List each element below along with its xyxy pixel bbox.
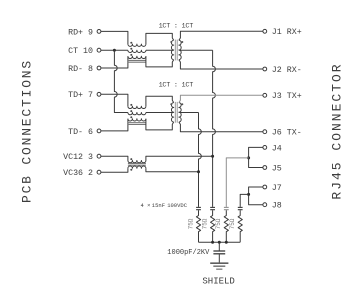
wire T1 secondary center tap to net B <box>179 49 213 51</box>
svg-text:J2 RX-: J2 RX- <box>272 66 302 75</box>
label 4 x 15nF 100VDC <box>141 202 188 209</box>
wire TD+ to choke L2 winding 1 <box>101 94 128 106</box>
transformer T1 phase dots <box>170 41 183 43</box>
svg-text:J6 TX-: J6 TX- <box>272 129 302 138</box>
svg-text:J8: J8 <box>272 202 282 211</box>
wire choke L1 w1 to transformer T1 primary top <box>146 33 174 44</box>
wire J4-J5 tie <box>249 147 263 167</box>
wire VC36 to choke L3 winding B <box>101 168 128 172</box>
wire RD- to choke L1 winding 3 <box>101 56 128 68</box>
junction net A / VC36 <box>197 170 200 173</box>
capacitor C3 (gray) <box>224 207 229 209</box>
svg-text:1CT : 1CT: 1CT : 1CT <box>159 81 194 89</box>
wire T1 secondary bottom to J2 <box>179 60 263 69</box>
transformer T2 primary winding <box>171 103 173 122</box>
choke L3 winding A <box>128 158 146 163</box>
ground bus <box>199 241 241 243</box>
pin VC36 2 <box>63 169 101 178</box>
transformer T1 core <box>175 40 177 61</box>
resistor R2 75ohm <box>201 210 214 242</box>
pin J3 TX+ <box>263 92 302 101</box>
svg-text:75Ω: 75Ω <box>229 218 236 229</box>
pin J1 RX+ <box>263 28 302 37</box>
svg-text:4 ×: 4 × <box>141 202 151 209</box>
svg-text:TD+ 7: TD+ 7 <box>68 91 93 100</box>
wire T2 secondary top to J3 (gray) <box>179 95 263 102</box>
junction on CT wire <box>113 49 116 52</box>
svg-text:VC36 2: VC36 2 <box>63 169 93 178</box>
capacitor C4 <box>238 207 243 209</box>
pin J7 <box>263 184 282 193</box>
pin TD+ 7 <box>68 91 101 100</box>
wire VC12 to choke L3 winding A <box>101 156 128 160</box>
transformer T2 core <box>175 102 177 123</box>
resistor R1 75ohm <box>187 210 200 242</box>
svg-text:J1 RX+: J1 RX+ <box>272 28 302 37</box>
choke L2 winding 1 <box>128 104 146 109</box>
svg-text:75Ω: 75Ω <box>215 218 222 229</box>
svg-text:TD- 6: TD- 6 <box>68 128 93 137</box>
junction net B / VC12 <box>211 155 214 158</box>
pin J2 RX- <box>263 66 302 75</box>
svg-text:100VDC: 100VDC <box>167 202 188 209</box>
wire T2 secondary center tap to net A <box>179 112 199 114</box>
wire TD- to choke L2 winding 3 <box>101 119 128 131</box>
wire J7-J8 tie <box>249 187 263 205</box>
choke L1 winding 3 <box>128 54 146 59</box>
choke L3 core <box>128 164 146 166</box>
wire T1 secondary top to J1 <box>179 31 263 40</box>
transformer T1 primary winding <box>171 40 173 59</box>
wire choke L2 w3 to T2 primary bottom <box>146 119 174 130</box>
capacitor C2 <box>210 207 215 209</box>
choke L3 winding B <box>128 166 146 171</box>
transformer T1 secondary winding <box>179 40 181 59</box>
svg-text:J4: J4 <box>272 144 282 153</box>
wire J4/J5 to branch 3 (gray) <box>226 158 248 207</box>
pin J5 <box>263 164 282 173</box>
svg-text:SHIELD: SHIELD <box>202 277 234 287</box>
wire choke L3 winding A to net B <box>146 156 213 160</box>
wire CT junction down to choke L2 winding 2 (hops RD- and TD+) <box>114 50 128 112</box>
pin VC12 3 <box>63 153 101 162</box>
svg-text:15nF: 15nF <box>152 202 165 209</box>
pin RD- 8 <box>68 65 101 74</box>
svg-text:RD- 8: RD- 8 <box>68 65 93 74</box>
capacitor C1 <box>196 207 201 209</box>
choke L2 winding 2 <box>128 110 146 115</box>
capacitor C5 1000pF/2KV <box>213 242 225 263</box>
svg-text:VC12 3: VC12 3 <box>63 153 93 162</box>
wire CT to choke L1 winding 2 <box>101 49 128 51</box>
svg-text:RJ45 CONNECTOR: RJ45 CONNECTOR <box>329 62 344 199</box>
choke L2 core <box>128 123 146 125</box>
pin J6 TX- <box>263 129 302 138</box>
junction J4/J5 <box>247 156 250 159</box>
junction bus / R3 <box>225 241 228 244</box>
svg-text:75Ω: 75Ω <box>187 218 194 229</box>
wire choke L1 w3 to T1 primary bottom <box>146 56 174 67</box>
choke L1 winding 2 <box>128 48 146 53</box>
transformer T2 secondary winding <box>179 103 181 122</box>
wire T2 secondary bottom to J6 <box>179 122 263 132</box>
svg-text:1000pF/2KV: 1000pF/2KV <box>167 249 210 257</box>
pin TD- 6 <box>68 128 101 137</box>
net B vertical (RX CT) with hops at J2, J3, J6 <box>213 50 216 207</box>
pin J4 <box>263 144 282 153</box>
svg-text:1CT : 1CT: 1CT : 1CT <box>159 22 194 30</box>
ground symbol SHIELD <box>210 263 228 269</box>
junction bus / shield drop <box>218 241 221 244</box>
wire choke L3 winding B to net A <box>146 168 199 172</box>
svg-text:J3 TX+: J3 TX+ <box>272 92 302 101</box>
choke L2 winding 3 <box>128 116 146 121</box>
svg-text:J7: J7 <box>272 184 282 193</box>
svg-text:CT 10: CT 10 <box>68 47 93 56</box>
wire choke L2 w2 to T2 primary center tap <box>146 112 174 114</box>
resistor R3 75ohm <box>215 210 228 242</box>
transformer T2 phase dots <box>170 103 183 105</box>
junction bus / R2 <box>211 241 214 244</box>
choke L1 winding 1 <box>128 42 146 47</box>
svg-text:PCB CONNECTIONS: PCB CONNECTIONS <box>20 59 35 203</box>
svg-text:J5: J5 <box>272 164 282 173</box>
net A vertical (TX CT) with hops at J6 and VC12 row <box>199 113 202 207</box>
pin RD+ 9 <box>68 28 101 37</box>
pin CT 10 <box>68 47 101 56</box>
junction J7/J8 <box>247 193 250 196</box>
wire J7/J8 to branch 4 <box>240 194 248 207</box>
svg-text:RD+ 9: RD+ 9 <box>68 28 93 37</box>
wire choke L1 w2 to T1 primary center tap <box>146 49 174 51</box>
pin J8 <box>263 202 282 211</box>
wire choke L2 w1 to transformer T2 primary top <box>146 96 174 106</box>
wire RD+ to choke L1 winding 1 <box>101 31 128 44</box>
choke L1 core <box>128 60 146 62</box>
svg-text:75Ω: 75Ω <box>201 218 208 229</box>
resistor R4 75ohm <box>229 210 242 242</box>
